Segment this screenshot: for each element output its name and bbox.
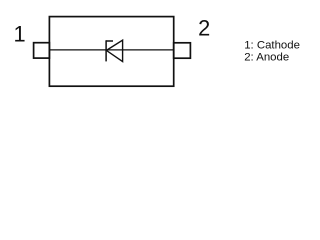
svg-text:2: 2 [198, 16, 210, 41]
diode D1 triangle (anode, pointing left) [106, 40, 122, 61]
diode D1 cathode top serif [106, 40, 113, 42]
wire (internal lead pin1 to pin2) [49, 49, 173, 51]
pin 1 terminal [34, 43, 50, 58]
svg-text:1: 1 [13, 22, 25, 47]
svg-text:1: Cathode: 1: Cathode [244, 40, 300, 52]
package body [49, 17, 173, 87]
pin 2 terminal [174, 43, 191, 58]
diode D1 cathode bar [105, 40, 107, 61]
svg-text:2: Anode: 2: Anode [244, 51, 289, 63]
